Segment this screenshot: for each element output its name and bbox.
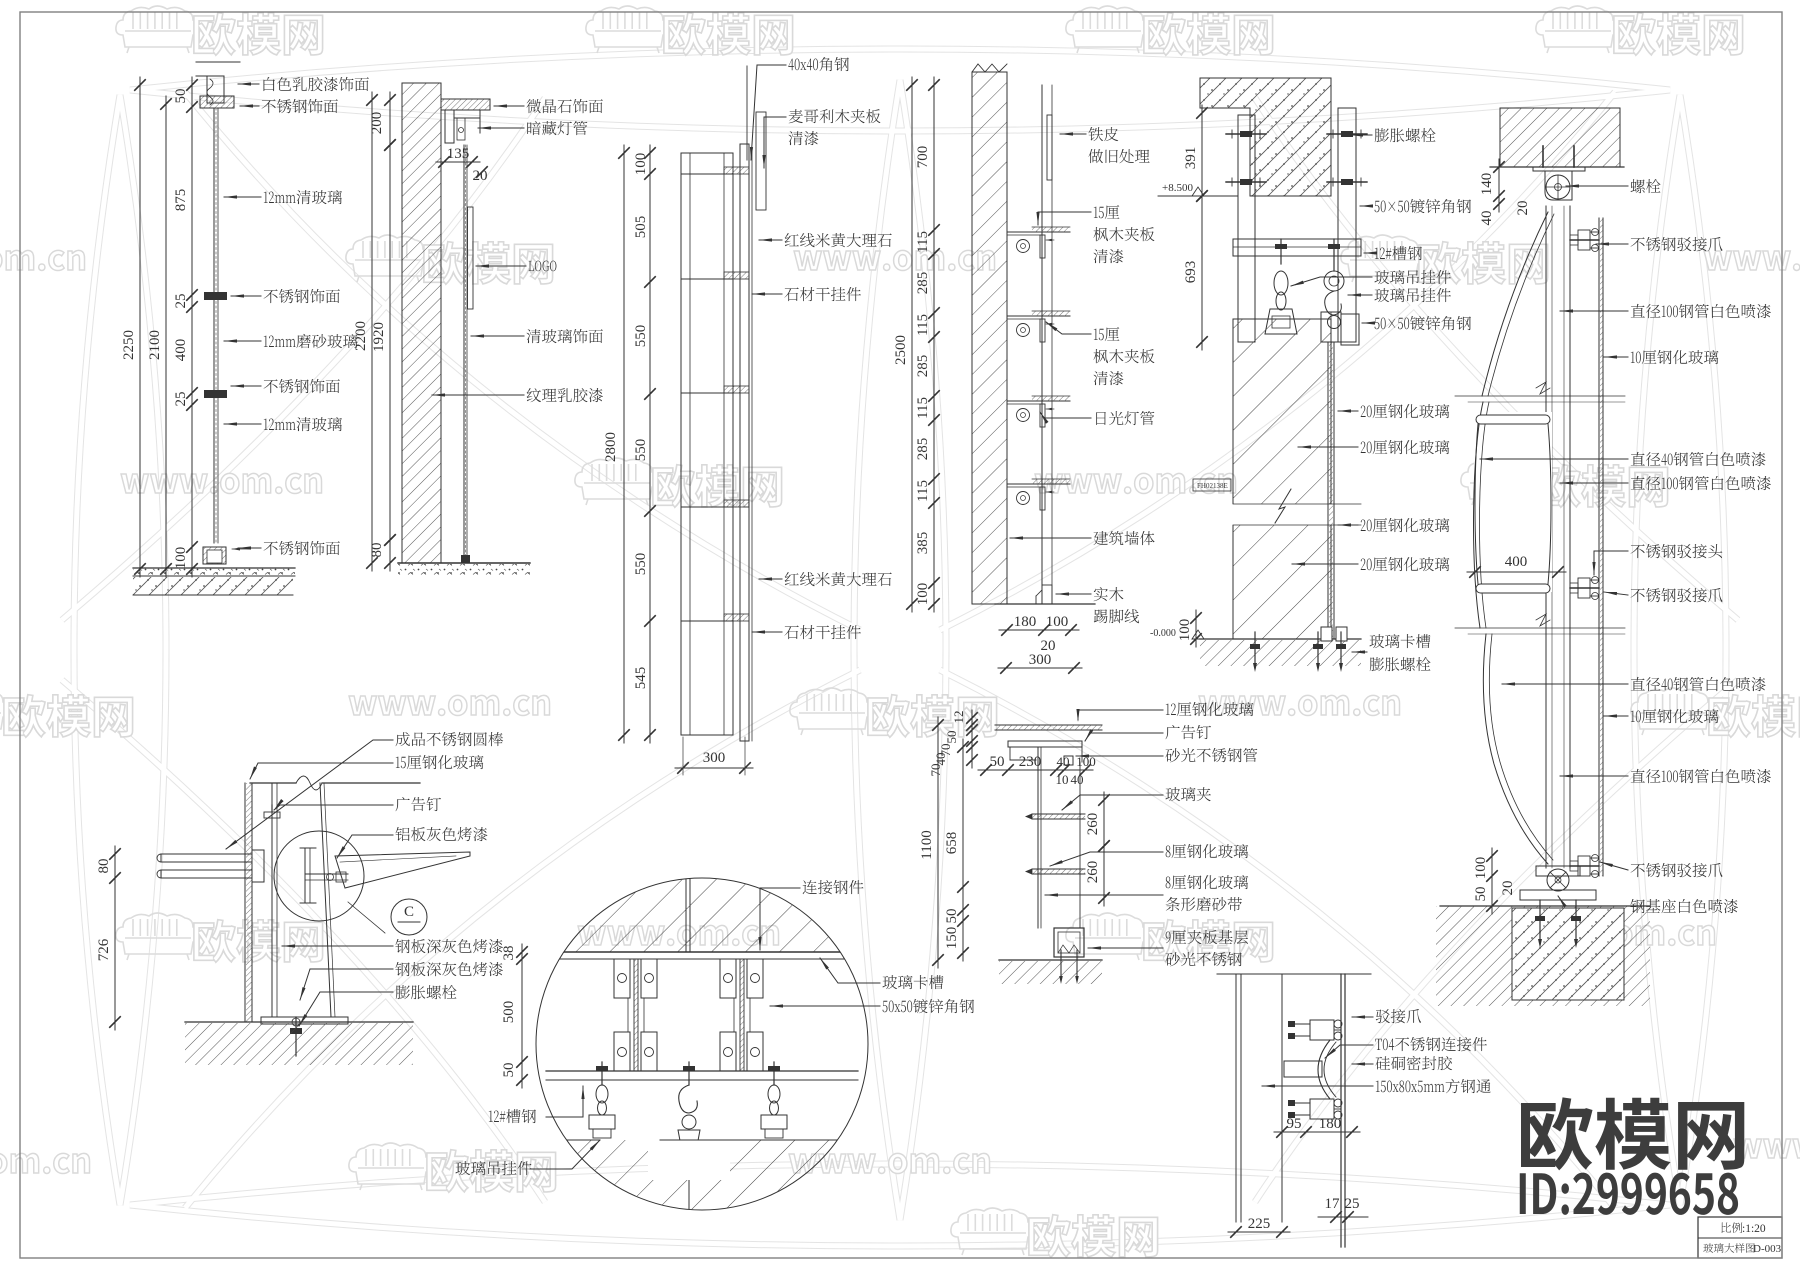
- dim 2200: [371, 92, 373, 571]
- labels D7: [395, 732, 503, 746]
- svg-text:50: 50: [944, 731, 959, 744]
- svg-text:50: 50: [501, 1063, 517, 1078]
- channel D8: [546, 1070, 858, 1072]
- labels D1: [263, 77, 368, 91]
- floor sand D2: [398, 564, 530, 577]
- svg-text:FH02138E: FH02138E: [1197, 482, 1228, 490]
- box D10: [1284, 1061, 1322, 1077]
- glass wall 15mm: [244, 783, 246, 1022]
- spider fittings D6: [1570, 239, 1599, 241]
- svg-text:25: 25: [173, 294, 189, 309]
- svg-text:726: 726: [96, 938, 112, 961]
- hanger right: [1333, 239, 1335, 271]
- shelf 1: [1007, 315, 1070, 317]
- dims D7: [114, 846, 116, 1030]
- base box D9: [1054, 928, 1084, 957]
- stamp box: [1193, 479, 1231, 491]
- shelf 2: [1007, 400, 1070, 402]
- level +8.500: [1158, 195, 1238, 197]
- divider 3: [681, 506, 733, 508]
- dim chain 50/875/25/400/25/100: [191, 77, 193, 577]
- dim 2500: [911, 77, 913, 612]
- wall hatch glass D5: [1233, 319, 1331, 639]
- glass D5: [1327, 342, 1329, 639]
- labels D9: [1166, 702, 1254, 716]
- watermark arcs: [74, 95, 120, 1205]
- dim chain D4: [933, 77, 935, 612]
- shelf 3: [1007, 483, 1070, 485]
- stainless band 1: [204, 292, 227, 300]
- glass vertical D9: [1037, 747, 1039, 928]
- dims D9 left: [937, 717, 939, 968]
- svg-text:385: 385: [915, 532, 931, 555]
- svg-text:40: 40: [1057, 754, 1070, 769]
- floor D7: [185, 1021, 413, 1023]
- floor D4: [995, 603, 1095, 605]
- dims D6 bottom: [1491, 848, 1493, 914]
- ad pin D7: [264, 812, 280, 818]
- svg-text:140: 140: [1479, 173, 1495, 196]
- slab hatch D8: [536, 878, 868, 952]
- svg-text:40: 40: [1071, 772, 1084, 787]
- dims D6 top: [1498, 159, 1500, 212]
- svg-text:285: 285: [915, 438, 931, 461]
- svg-text:100: 100: [633, 153, 649, 176]
- expansion bolts rows: [1226, 133, 1266, 135]
- labels D10: [1376, 1009, 1421, 1023]
- svg-text:545: 545: [633, 667, 649, 690]
- svg-text:700: 700: [915, 146, 931, 169]
- concrete slab: [1200, 78, 1331, 196]
- svg-text:693: 693: [1183, 261, 1199, 284]
- svg-text:658: 658: [944, 832, 960, 855]
- svg-text:95: 95: [1287, 1116, 1302, 1132]
- upper bow strut: [1482, 212, 1548, 396]
- svg-text:38: 38: [501, 946, 517, 961]
- dim 2250: [139, 77, 141, 577]
- svg-text:180: 180: [1319, 1116, 1342, 1132]
- dims D8: [521, 944, 523, 1088]
- svg-text:25: 25: [1345, 1196, 1360, 1212]
- floor line: [133, 567, 295, 569]
- divider 1: [681, 278, 733, 280]
- top line D7: [250, 782, 296, 784]
- svg-text:100: 100: [1473, 857, 1489, 880]
- glass D6: [1598, 218, 1600, 876]
- svg-text:2250: 2250: [121, 330, 137, 360]
- dims D10: [1274, 1131, 1360, 1133]
- dim 135: [436, 161, 480, 163]
- svg-text:70: 70: [928, 764, 943, 777]
- svg-text:+8.500: +8.500: [1162, 182, 1193, 194]
- anchor bolts D6: [1539, 900, 1541, 944]
- svg-text:25: 25: [173, 392, 189, 407]
- svg-text:225: 225: [1248, 1216, 1271, 1232]
- svg-text:80: 80: [96, 859, 112, 874]
- svg-text:2800: 2800: [603, 432, 619, 462]
- concrete block D6: [1512, 908, 1624, 1000]
- svg-text:500: 500: [501, 1001, 517, 1024]
- bottom dims D4: [999, 629, 1079, 631]
- svg-text:505: 505: [633, 216, 649, 239]
- svg-text:300: 300: [1029, 652, 1052, 668]
- svg-text:285: 285: [915, 272, 931, 295]
- break lines D6: [1455, 395, 1625, 397]
- svg-text:17: 17: [1325, 1196, 1341, 1212]
- barrel section: [1474, 412, 1552, 592]
- channel 12#: [1233, 239, 1361, 256]
- site watermark logo dark: [1521, 1097, 1744, 1170]
- labels D3: [788, 57, 849, 71]
- floor sand strip: [133, 568, 295, 576]
- labels D2: [526, 99, 602, 113]
- svg-text:20: 20: [1515, 201, 1531, 216]
- column body: [681, 153, 733, 735]
- glass above slab: [685, 878, 687, 952]
- main pipe 100: [1545, 206, 1547, 868]
- wall hatch: [402, 83, 441, 563]
- top glass horizontal: [995, 724, 1102, 726]
- skirting: [1042, 585, 1052, 604]
- svg-text:2500: 2500: [893, 335, 909, 365]
- rails: [161, 854, 252, 862]
- svg-text:50: 50: [1473, 887, 1489, 902]
- dim 400: [1467, 571, 1566, 573]
- svg-text:2100: 2100: [147, 330, 163, 360]
- svg-text:115: 115: [915, 397, 931, 419]
- svg-text:200: 200: [369, 112, 385, 135]
- svg-text:875: 875: [173, 189, 189, 212]
- title block: [1698, 1217, 1782, 1258]
- wood board top: [756, 112, 766, 210]
- dim 1920: [389, 137, 391, 548]
- fittings D10: [1310, 1020, 1334, 1040]
- divider 0: [681, 173, 733, 175]
- detail circle: [274, 831, 364, 921]
- svg-text:D-003: D-003: [1753, 1243, 1782, 1255]
- section mark C: [391, 899, 427, 935]
- svg-text:100: 100: [173, 547, 189, 570]
- glass 12mm clear upper: [213, 108, 215, 543]
- labels D4: [1088, 127, 1118, 141]
- hangers D8: [601, 1062, 603, 1085]
- dim 693: [1201, 188, 1203, 350]
- labels D8: [803, 880, 864, 894]
- svg-text:-0.000: -0.000: [1150, 628, 1176, 639]
- aluminum panel wedge: [335, 852, 470, 888]
- svg-text:100: 100: [1046, 614, 1069, 630]
- svg-text:550: 550: [633, 325, 649, 348]
- stone plate right: [740, 144, 749, 741]
- svg-text:115: 115: [915, 231, 931, 253]
- counter structure: [1008, 741, 1082, 747]
- svg-text:115: 115: [915, 480, 931, 502]
- svg-text:230: 230: [1019, 754, 1042, 770]
- floor hatch: [133, 577, 293, 595]
- floor line D2: [398, 562, 530, 564]
- ceiling bracket 微晶石: [441, 99, 490, 110]
- svg-text:180: 180: [1014, 614, 1037, 630]
- svg-text:260: 260: [1085, 813, 1101, 836]
- panel board: [1041, 85, 1043, 604]
- svg-text:2200: 2200: [353, 321, 369, 351]
- glass shoe: [1321, 627, 1332, 641]
- dim 20: [477, 167, 487, 177]
- slanted glass: [320, 783, 331, 1017]
- svg-text:10: 10: [1056, 772, 1069, 787]
- svg-text:12: 12: [951, 711, 966, 724]
- floor D9: [999, 959, 1102, 961]
- bottom slab hatch D8: [536, 1140, 868, 1210]
- dim 100 D5: [1195, 610, 1197, 647]
- ceiling slab D6: [1500, 108, 1620, 167]
- lower bow strut: [1483, 634, 1548, 864]
- anchors D5: [1254, 632, 1256, 668]
- svg-text:50: 50: [944, 909, 960, 924]
- tin plate top: [1047, 115, 1052, 180]
- dim 80: [389, 532, 391, 571]
- dim chain D3: [649, 145, 651, 743]
- base D6: [1547, 869, 1569, 891]
- T04 arm: [1318, 1040, 1330, 1099]
- bolts D9: [1060, 950, 1062, 980]
- svg-text:50: 50: [173, 89, 189, 104]
- svg-text:20: 20: [473, 168, 488, 184]
- svg-text:80: 80: [369, 543, 385, 558]
- svg-text:550: 550: [633, 553, 649, 576]
- labels D6: [1630, 179, 1660, 193]
- dim 391: [1201, 105, 1203, 204]
- svg-text:391: 391: [1183, 147, 1199, 170]
- svg-text:1920: 1920: [371, 322, 387, 352]
- stainless band 2: [204, 390, 227, 398]
- divider 4: [681, 620, 733, 622]
- glass clamps D9: [1032, 814, 1085, 819]
- detail circle D8: [536, 878, 868, 1210]
- break D5: [1225, 504, 1365, 525]
- dims D9 top: [971, 710, 973, 768]
- steel plate: [271, 783, 273, 1017]
- top line D10: [1217, 973, 1371, 975]
- angle steel columns: [1238, 115, 1255, 342]
- dim 2800: [623, 145, 625, 743]
- floor D5: [1200, 638, 1361, 640]
- svg-text:20: 20: [1500, 881, 1516, 896]
- svg-text::1:20: :1:20: [1742, 1223, 1766, 1235]
- svg-text:550: 550: [633, 439, 649, 462]
- glass shoe D2: [461, 555, 470, 563]
- svg-text:100: 100: [915, 583, 931, 606]
- svg-text:150: 150: [944, 927, 960, 950]
- glass D10: [1340, 974, 1342, 1247]
- svg-text:1100: 1100: [919, 830, 935, 859]
- LOGO plate: [468, 207, 474, 309]
- watermark logos: [116, 6, 200, 53]
- level 0.000: [1192, 630, 1204, 639]
- bottom shoe: [203, 547, 226, 564]
- divider 2: [681, 392, 733, 394]
- dim 300: [675, 767, 753, 769]
- svg-text:40: 40: [1479, 211, 1495, 226]
- top cap white paint: [207, 76, 224, 103]
- svg-text:400: 400: [173, 339, 189, 362]
- floor hatch D6: [1440, 905, 1650, 907]
- top hinge: [1542, 146, 1544, 167]
- svg-text:115: 115: [915, 314, 931, 336]
- svg-text:300: 300: [703, 750, 726, 766]
- glass vertical: [463, 145, 465, 563]
- svg-text:135: 135: [447, 146, 470, 162]
- dim 2100: [165, 96, 167, 577]
- clamp assemblies: [614, 959, 630, 998]
- labels D5: [1375, 128, 1436, 142]
- svg-text:50: 50: [990, 754, 1005, 770]
- top cap stainless: [200, 96, 234, 108]
- svg-text:400: 400: [1505, 554, 1528, 570]
- bracket in circle: [304, 848, 306, 903]
- lower angle steel: [1341, 314, 1359, 345]
- svg-text:100: 100: [1177, 619, 1193, 642]
- svg-text:285: 285: [915, 355, 931, 378]
- svg-text:C: C: [404, 904, 414, 920]
- wall lines D10: [1235, 974, 1237, 1222]
- glass bottom D7: [261, 1017, 348, 1024]
- shelf 0: [1007, 231, 1070, 233]
- hanger left: [1280, 239, 1282, 264]
- wall hatch D4: [972, 72, 1007, 604]
- dim 200: [389, 92, 391, 153]
- svg-text:260: 260: [1085, 861, 1101, 884]
